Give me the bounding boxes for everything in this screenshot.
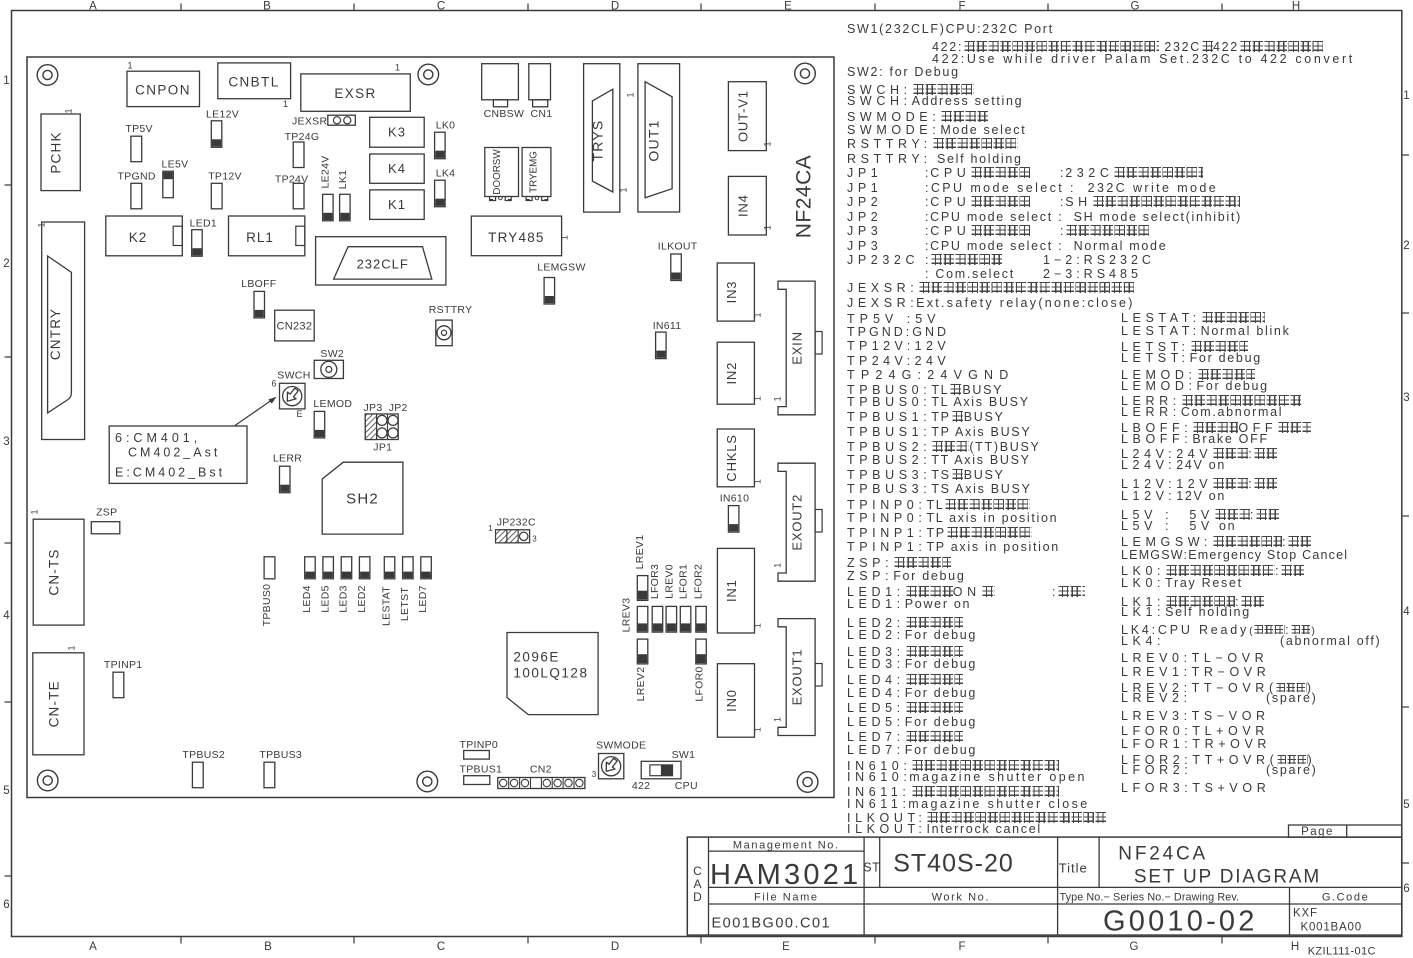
legend note ZSP	[847, 555, 951, 572]
LED LED1	[192, 230, 203, 257]
test point TPBUS0	[264, 557, 275, 579]
legend note SW2	[847, 64, 960, 81]
connector IN2	[717, 342, 754, 404]
test point TPINP0 (horizontal)	[464, 751, 490, 760]
rotary switch SWCH	[280, 383, 306, 409]
connector PCHK	[41, 114, 80, 191]
connector IN4	[728, 176, 766, 235]
LED cluster row LREV3 LFOR3 LREV0 LFOR1 LFOR2	[637, 606, 648, 632]
LED LREV2	[637, 639, 648, 664]
jumper JEXSR	[328, 115, 356, 125]
mounting hole bottom-left	[37, 770, 58, 791]
legend note LBOFF	[1121, 420, 1311, 437]
LED LED7	[421, 557, 432, 579]
jumper block JP1/JP2/JP3	[365, 414, 398, 440]
connector IN3	[717, 263, 754, 321]
legend notes test points	[847, 311, 941, 328]
title block horizontals	[709, 850, 865, 852]
LED LEMGSW	[544, 278, 555, 305]
test point TP24G	[293, 142, 304, 168]
mounting hole top-middle	[418, 64, 439, 85]
connector CHKLS	[717, 429, 754, 487]
connector OUT1	[638, 64, 680, 212]
LED LED4	[305, 557, 316, 579]
title block outline	[687, 837, 1402, 935]
IC 2096E 100LQ128	[507, 633, 598, 715]
legend note ILKOUT	[847, 810, 1106, 827]
relay K2	[106, 216, 183, 256]
connector TRY485	[471, 216, 561, 256]
mounting hole bottom-right	[797, 772, 818, 793]
callout box 6:CM401	[109, 426, 247, 483]
LED LETST	[403, 557, 414, 579]
slide switch SW1	[641, 761, 681, 779]
legend notes LEDs	[847, 584, 995, 601]
LED LE5V (black at top)	[163, 171, 174, 198]
title block verticals	[708, 837, 710, 935]
connector TRYEMG	[522, 148, 551, 197]
LED LFOR0	[696, 639, 707, 664]
relay RL1	[229, 216, 305, 256]
connector CNBSW	[482, 64, 519, 100]
test point TPGND	[131, 183, 142, 209]
connector EXSR	[301, 74, 411, 111]
legend note L12V	[1121, 476, 1277, 493]
relay K1	[370, 190, 425, 220]
connector CNPON	[127, 71, 200, 106]
legend note JP1	[847, 165, 882, 182]
Page box	[1289, 825, 1402, 837]
LED LK4	[435, 180, 446, 207]
legend note JP3	[847, 223, 882, 240]
test point TPBUS3	[264, 762, 275, 788]
mounting hole top-right	[795, 63, 816, 84]
connector CNBTL	[218, 63, 291, 99]
LED IN611	[656, 332, 667, 359]
legend note LEMOD	[1121, 367, 1255, 384]
LED LERR	[280, 466, 291, 493]
legend note LK4	[1121, 622, 1315, 639]
test point TPBUS2	[192, 762, 203, 788]
test point TP24V	[293, 183, 304, 209]
LED LK1	[340, 194, 351, 221]
legend note L5V	[1121, 507, 1279, 524]
legend note L24V	[1121, 446, 1277, 463]
legend notes LREV/LFOR	[1121, 650, 1268, 667]
connector IN0	[717, 664, 754, 738]
connector CN232	[275, 310, 315, 341]
relay K4	[370, 154, 425, 183]
push button RSTTRY	[436, 320, 452, 346]
connector EXIN	[778, 281, 815, 415]
mounting hole top-left	[37, 65, 58, 86]
LED IN610	[728, 506, 739, 532]
LED LBOFF	[254, 291, 265, 318]
callout arrow to SWCH	[235, 399, 274, 426]
LED LED3	[341, 557, 352, 579]
jumper JP232C	[496, 530, 530, 543]
LED ILKOUT	[671, 254, 682, 281]
legend note SW1	[847, 21, 1054, 38]
test point TPINP1	[113, 672, 124, 698]
test point ZSP	[91, 522, 120, 534]
LED LED2	[359, 557, 370, 579]
LED LE24V	[323, 194, 334, 221]
legend note JEXSR	[847, 280, 1134, 297]
frame zone ticks left	[5, 184, 12, 186]
connector 232CLF	[316, 237, 446, 285]
LED LED5	[323, 557, 334, 579]
connector EXOUT2	[778, 463, 815, 581]
frame zone ticks bottom	[180, 937, 182, 944]
legend note JP232C	[847, 252, 919, 269]
legend note SWCH	[847, 82, 974, 99]
LED LREV1	[637, 576, 648, 601]
mounting hole bottom-middle	[417, 771, 438, 792]
legend note IN610	[847, 758, 1059, 775]
legend note LK1	[1121, 594, 1264, 611]
PCB board outline NF24CA	[27, 57, 834, 798]
connector IN1	[717, 548, 754, 633]
LED LEMOD	[314, 411, 325, 438]
LED LE12V	[211, 121, 222, 148]
rotary switch SWMODE	[599, 754, 624, 779]
switch SW2	[314, 360, 343, 378]
connector CN1	[529, 64, 551, 100]
test point TP12V	[211, 183, 222, 209]
IC SH2	[322, 462, 403, 534]
legend note JP2	[847, 194, 882, 211]
connector CN-TS	[33, 519, 84, 625]
legend note IN611	[847, 784, 1059, 801]
LED LESTAT	[384, 557, 395, 579]
connector OUT-V1	[728, 82, 766, 151]
legend note LESTAT	[1121, 310, 1265, 327]
test point TPBUS1 (horizontal)	[464, 776, 490, 785]
connector CN2	[498, 778, 585, 789]
legend note LETST	[1121, 339, 1248, 356]
connector TRYS	[584, 64, 620, 212]
connector DOORSW	[485, 148, 519, 197]
legend note LERR	[1121, 393, 1301, 410]
connector CNTRY	[42, 222, 85, 440]
legend note LEMGSW	[1121, 534, 1311, 551]
connector EXOUT1	[778, 619, 815, 736]
frame zone ticks top	[180, 4, 182, 11]
connector CN-TE	[33, 653, 84, 755]
legend note RSTTRY	[847, 136, 1018, 153]
frame zone ticks right	[1402, 154, 1409, 156]
relay K3	[370, 117, 425, 147]
test point TP5V	[131, 136, 142, 162]
legend note LK0	[1121, 563, 1304, 580]
LED LK0	[435, 132, 446, 159]
legend note SWMODE	[847, 109, 988, 126]
